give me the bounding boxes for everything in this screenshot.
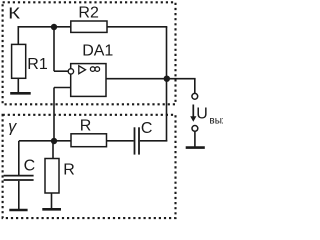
op-amp infinity symbol (90, 67, 95, 72)
capacitor C series left plate (134, 127, 136, 154)
wire: op-amp output to output corner (106, 78, 196, 80)
ground bar under R1 (10, 92, 31, 95)
wire: R2 right to right vertical rail (107, 26, 167, 28)
wire: C right plate to right rail (140, 140, 167, 142)
frequency network gamma dashed box (3, 115, 176, 218)
node: output junction dot (164, 76, 170, 82)
ground bar under shunt R (42, 208, 61, 211)
op-amp triangle symbol (79, 66, 86, 74)
svg-text:U: U (196, 106, 208, 123)
svg-text:R2: R2 (78, 4, 99, 21)
wire: node B left then down to shunt C (18, 141, 20, 175)
wire: shunt R bottom to ground (51, 193, 53, 209)
resistor R horizontal (71, 134, 107, 147)
wire: node A down to inverting input (53, 27, 55, 71)
wire: bottom terminal to ground bar (194, 131, 196, 146)
svg-text:R: R (80, 118, 92, 135)
resistor R2 (71, 21, 107, 32)
svg-text:DA1: DA1 (82, 43, 113, 60)
svg-text:К: К (8, 4, 20, 22)
wire: R1 top vertical (17, 27, 19, 45)
wire: down to output terminal (194, 79, 196, 94)
wire: non-inverting input down to node B (53, 88, 55, 142)
capacitor C shunt top plate (4, 175, 34, 177)
wire: node B down to shunt R (52, 141, 54, 159)
wire: R1 bottom to ground (17, 78, 19, 93)
wire: R right to capacitor C left plate (107, 140, 134, 142)
svg-text:вых: вых (209, 115, 223, 126)
Uout arrow (192, 105, 194, 118)
capacitor C shunt bottom plate (4, 179, 34, 181)
wire: right vertical rail from R2 down to C branch (166, 27, 168, 142)
svg-text:C: C (141, 120, 153, 137)
output terminal circle top (192, 93, 198, 99)
wire: horizontal to inverting input circle (54, 70, 68, 72)
ground bar under shunt C (9, 209, 27, 212)
capacitor C series right plate (138, 127, 140, 154)
resistor R1 (12, 44, 26, 78)
resistor R shunt vertical (45, 159, 59, 194)
output terminal circle bottom (192, 125, 198, 131)
wire: top horizontal from R1 branch to R2 left (18, 26, 72, 28)
wire: shunt C bottom to ground (18, 181, 20, 210)
op-amp DA1 body (71, 64, 106, 97)
ground bar under output (186, 146, 205, 149)
svg-text:R1: R1 (27, 56, 48, 73)
node B junction dot (51, 138, 57, 144)
wire: non-inverting input horizontal (54, 87, 71, 89)
node A junction dot (51, 24, 57, 30)
svg-text:R: R (63, 162, 75, 179)
amplifier block K dashed box (3, 2, 176, 104)
svg-text:γ: γ (8, 119, 17, 136)
wire: gamma network horizontal rail (19, 140, 71, 142)
inverting input circle (68, 69, 73, 74)
svg-text:C: C (24, 157, 36, 174)
